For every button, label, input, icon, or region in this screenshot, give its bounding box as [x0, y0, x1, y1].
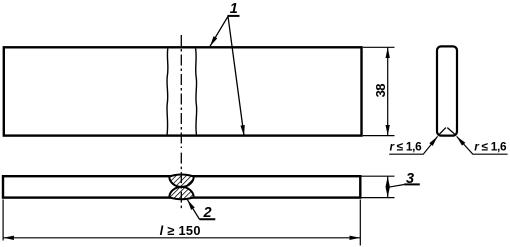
svg-text:r ≤ 1,6: r ≤ 1,6: [390, 139, 423, 153]
svg-text:l ≥ 150: l ≥ 150: [160, 223, 201, 238]
svg-text:38: 38: [373, 84, 388, 98]
svg-text:r ≤ 1,6: r ≤ 1,6: [474, 139, 507, 153]
svg-text:1: 1: [230, 1, 238, 17]
